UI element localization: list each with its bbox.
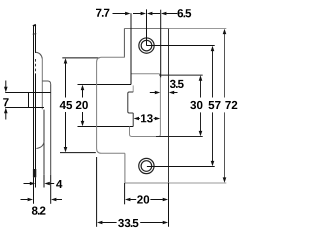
dim 20 top extension line: [78, 84, 132, 86]
dim 45 line upper arrow: [64, 58, 68, 97]
dim 30 top extension line: [159, 74, 203, 76]
dim 8.2 left extension line: [33, 177, 35, 204]
dim 45 top extension line: [62, 57, 99, 59]
dim 30 line upper arrow: [199, 75, 203, 97]
dim 20 bottom extension line: [78, 126, 134, 128]
top screw hole outer ring: [139, 38, 154, 53]
side view lip outer face upper: [41, 59, 43, 110]
bottom dim right extension: [168, 183, 170, 227]
dim 13 label: [141, 114, 153, 122]
dim 33.5 left extension: [96, 157, 98, 227]
dim 6.5 leader arrow: [161, 12, 177, 16]
dim 57 line lower arrow: [211, 112, 215, 166]
side view strip top cap: [33, 25, 36, 26]
dim 8.2 right extension line: [50, 175, 52, 204]
bottom dim 20 left extension: [124, 183, 126, 204]
dim 7 upper arrow: [4, 81, 8, 93]
dim 3.5 label: [170, 80, 184, 88]
front plate left edge lower: [124, 153, 126, 183]
dim 3.5 left arrow: [150, 91, 160, 95]
cutout left edge black segment: [130, 13, 132, 84]
front plate left edge upper: [123, 29, 125, 58]
dim 13 left arrow: [134, 117, 140, 121]
dim 4 right arrow: [44, 182, 54, 186]
side view latch box ledge: [42, 81, 50, 84]
dim 72 label: [225, 101, 237, 109]
dim 45 label: [60, 101, 72, 109]
dim 30 label: [190, 101, 202, 109]
side view lip outer face lower: [43, 110, 45, 175]
dim 20 label: [76, 101, 88, 109]
dim 4 left extension line: [35, 177, 37, 187]
top screw hole inner ring: [141, 40, 152, 51]
dim 45 line lower arrow: [64, 112, 68, 152]
bottom dim 20 label: [137, 195, 149, 203]
dim 20 line upper arrow: [81, 85, 85, 98]
bottom dim 20 right arrow: [150, 198, 168, 202]
side view lip bend top curve: [36, 52, 43, 59]
dim 8.2 right arrow: [51, 198, 62, 202]
bottom screw hole inner ring: [141, 161, 152, 172]
plate top edge extension: [169, 28, 227, 30]
bottom dim 20 left arrow: [125, 198, 136, 202]
front tab side edge lower: [132, 113, 134, 127]
side view plate strip left edge: [33, 25, 35, 177]
dim 45 bottom extension line: [60, 152, 96, 154]
side view latch box outer face: [50, 84, 52, 175]
dim 4 label: [56, 180, 62, 188]
dim 33.5 right arrow: [140, 221, 168, 225]
front plate right edge: [168, 29, 170, 184]
side view strip seam tick: [33, 33, 37, 36]
dim 57 line upper arrow: [211, 46, 215, 98]
side view plate strip right edge upper: [35, 25, 37, 53]
side view plate strip right edge lower: [35, 74, 37, 171]
dim 72 line lower arrow: [223, 112, 227, 182]
dim 72 line upper arrow: [223, 29, 227, 98]
dim 33.5 label: [118, 219, 138, 227]
side view strip bottom thick end: [33, 169, 36, 177]
dim 4 left arrow: [24, 182, 36, 186]
front plate top edge: [124, 28, 168, 30]
dim 7 top extension line: [5, 92, 51, 94]
side view bent tab left edge: [28, 93, 30, 108]
dim 57 label: [209, 101, 221, 109]
cutout right edge extension: [160, 10, 162, 78]
front bent tab outline: [128, 92, 133, 113]
side view lip tongue bottom bend: [36, 142, 44, 149]
latch cutout outline: [130, 74, 161, 137]
dim 30 bottom extension line: [156, 136, 203, 138]
front lip outline: [97, 57, 125, 153]
dim 7 bottom extension line: [5, 107, 44, 109]
dim 57 top extension line: [147, 45, 215, 47]
bottom screw hole outer ring: [139, 158, 154, 173]
lip edge through cutout: [132, 85, 134, 92]
dim 7.7 right arrow: [133, 12, 146, 16]
hole centerline extension: [146, 9, 148, 45]
dim 7 lower arrow: [4, 108, 8, 120]
dim 3.5 right arrow: [169, 91, 178, 95]
dim 8.2 label: [32, 207, 46, 215]
front plate bottom edge: [125, 182, 169, 184]
dim 8.2 left arrow: [21, 198, 34, 202]
dim 7.7 leader arrow: [113, 12, 131, 16]
dim 13 right arrow: [154, 117, 161, 121]
dim 20 line lower arrow: [81, 112, 85, 126]
dim 30 line lower arrow: [199, 112, 203, 136]
dim 6.5 left arrow: [147, 12, 160, 16]
dim 4 right extension line: [43, 175, 45, 188]
plate bottom edge extension: [169, 182, 227, 184]
dim 57 bottom extension line: [147, 166, 215, 168]
dim 33.5 left arrow: [97, 221, 117, 225]
side view plate strip hidden edge dashes: [35, 59, 37, 74]
dim 6.5 label: [178, 9, 192, 17]
dim 7 label: [3, 98, 8, 106]
dim 7.7 label: [96, 9, 109, 17]
